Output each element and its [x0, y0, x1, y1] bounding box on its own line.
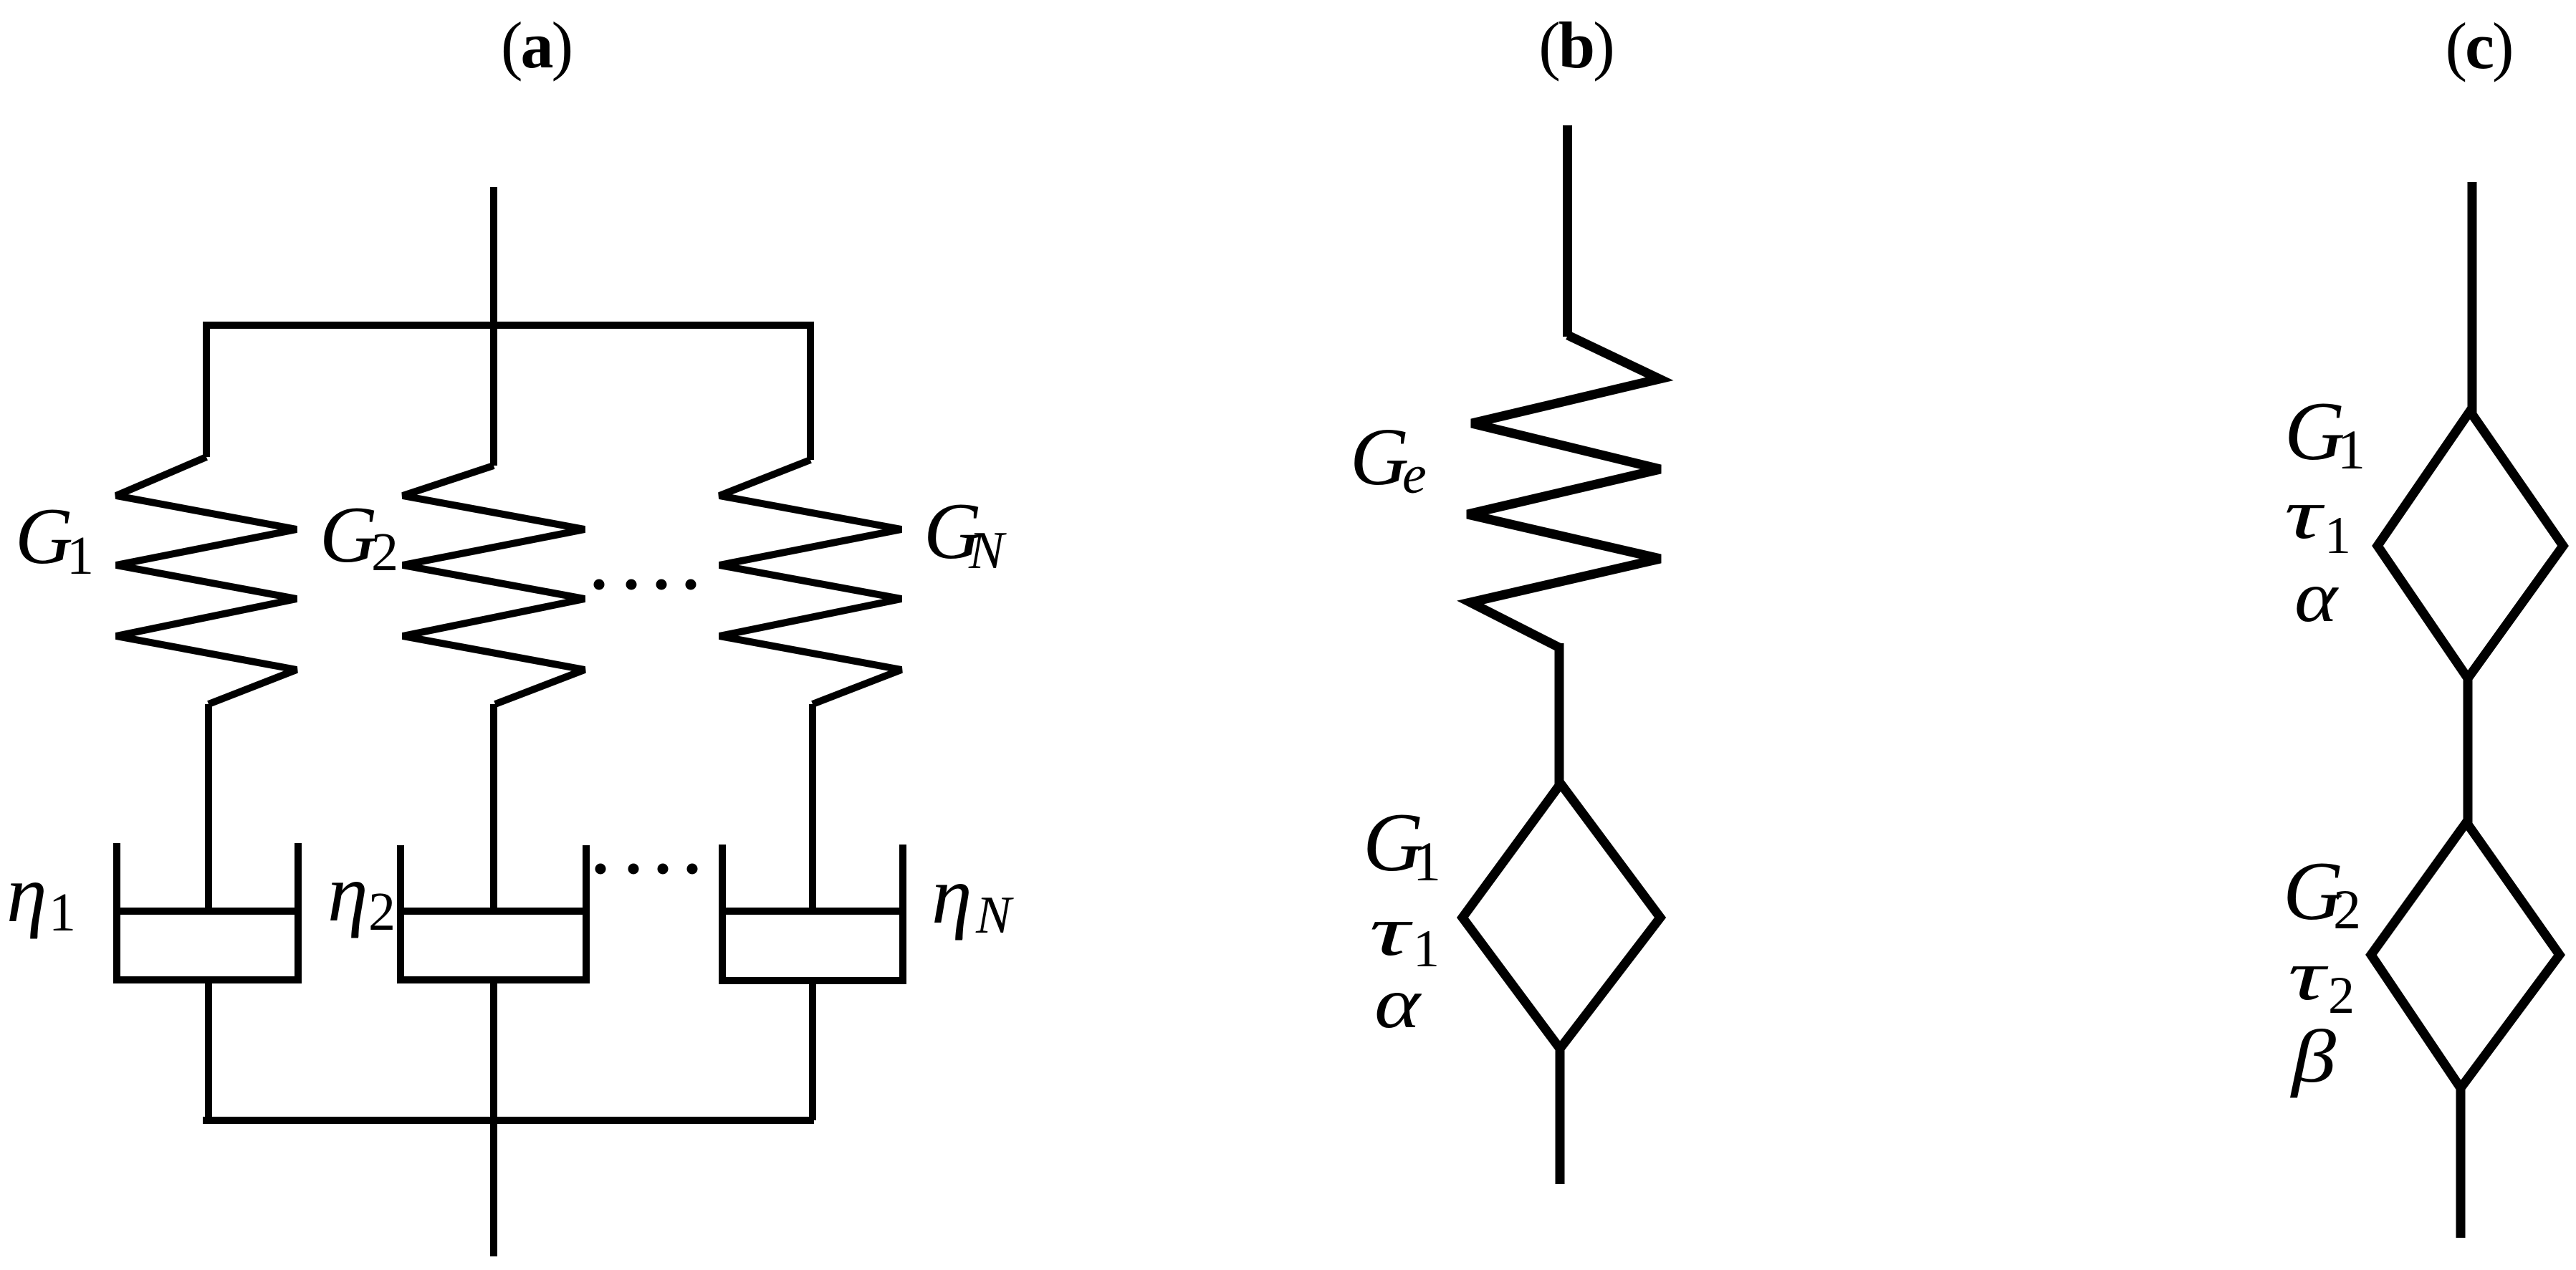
wire dashpot eta1 to bottom bus [205, 980, 212, 1120]
spring G2 [403, 466, 585, 704]
svg-text:e: e [1402, 445, 1427, 505]
svg-text:1: 1 [1413, 830, 1441, 893]
svg-text:τ: τ [2284, 474, 2325, 554]
spring Ge [1467, 335, 1660, 648]
wire top bus [203, 322, 814, 329]
wire spring Ge to springpot [1555, 643, 1564, 786]
wire rod spring G1 to dashpot [205, 704, 212, 912]
svg-text:G: G [1350, 411, 1409, 502]
wire right drop [807, 322, 814, 460]
svg-text:α: α [1374, 963, 1422, 1044]
springpot G2 tau2 beta (c) [2371, 822, 2560, 1088]
svg-text:G: G [15, 492, 73, 581]
wire top terminal A [490, 187, 497, 466]
svg-text:η: η [327, 847, 368, 938]
wire bottom terminal C [2456, 1088, 2466, 1238]
svg-text:τ: τ [2288, 935, 2329, 1015]
label tau2 (c) [2288, 935, 2355, 1025]
wire springpot1 to springpot2 (c) [2464, 677, 2473, 824]
svg-text:1: 1 [67, 526, 94, 586]
label beta (c) [2290, 1014, 2337, 1098]
wire rod spring G2 to dashpot [490, 704, 497, 912]
svg-text:2: 2 [2333, 878, 2361, 941]
wire rod spring GN to dashpot [809, 704, 816, 912]
springpot G1 tau1 alpha (c) [2378, 411, 2563, 678]
wire top terminal C [2468, 182, 2477, 413]
svg-text:η: η [932, 850, 972, 941]
svg-text:N: N [968, 521, 1007, 580]
label G2 (c) [2283, 845, 2361, 941]
label GN [924, 487, 1007, 580]
label tau1 (b) [1369, 891, 1440, 978]
wire bottom bus [203, 1117, 814, 1124]
svg-text:(b): (b) [1538, 9, 1612, 82]
dots ellipsis dashpots [595, 864, 698, 875]
label G1 (c) [2284, 385, 2365, 481]
dashpot eta2 [397, 845, 590, 983]
label G2 [320, 491, 398, 582]
springpot G1 tau1 alpha (b) [1462, 784, 1660, 1049]
dashpot eta1 [113, 843, 302, 983]
svg-text:2: 2 [368, 882, 396, 942]
wire left drop [203, 322, 210, 457]
label Ge [1350, 411, 1427, 505]
dashpot etaN [719, 845, 906, 983]
spring GN [719, 460, 901, 704]
svg-text:β: β [2290, 1014, 2337, 1098]
wire bottom terminal B [1556, 1049, 1565, 1184]
svg-text:τ: τ [1369, 891, 1413, 971]
svg-text:G: G [2284, 385, 2345, 478]
label G1 (b) [1363, 797, 1441, 893]
svg-text:G: G [320, 491, 378, 579]
label eta1 [6, 848, 76, 943]
svg-text:α: α [2294, 557, 2340, 638]
wire dashpot etaN to bottom bus [809, 981, 816, 1120]
wire bottom terminal A [490, 980, 497, 1256]
svg-text:(c): (c) [2445, 9, 2512, 82]
label alpha (b) [1374, 963, 1422, 1044]
dots ellipsis springs [594, 579, 696, 590]
svg-text:1: 1 [49, 882, 76, 943]
wire top terminal B [1563, 125, 1572, 337]
svg-text:(a): (a) [501, 9, 571, 82]
label alpha (c) [2294, 557, 2340, 638]
label tau1 (c) [2284, 474, 2351, 565]
spring G1 [116, 457, 297, 704]
label etaN [932, 850, 1014, 945]
svg-text:2: 2 [371, 522, 398, 582]
label G1 [15, 492, 94, 586]
svg-text:1: 1 [2337, 418, 2365, 481]
svg-text:η: η [6, 848, 47, 939]
svg-text:N: N [975, 886, 1014, 945]
label eta2 [327, 847, 396, 942]
